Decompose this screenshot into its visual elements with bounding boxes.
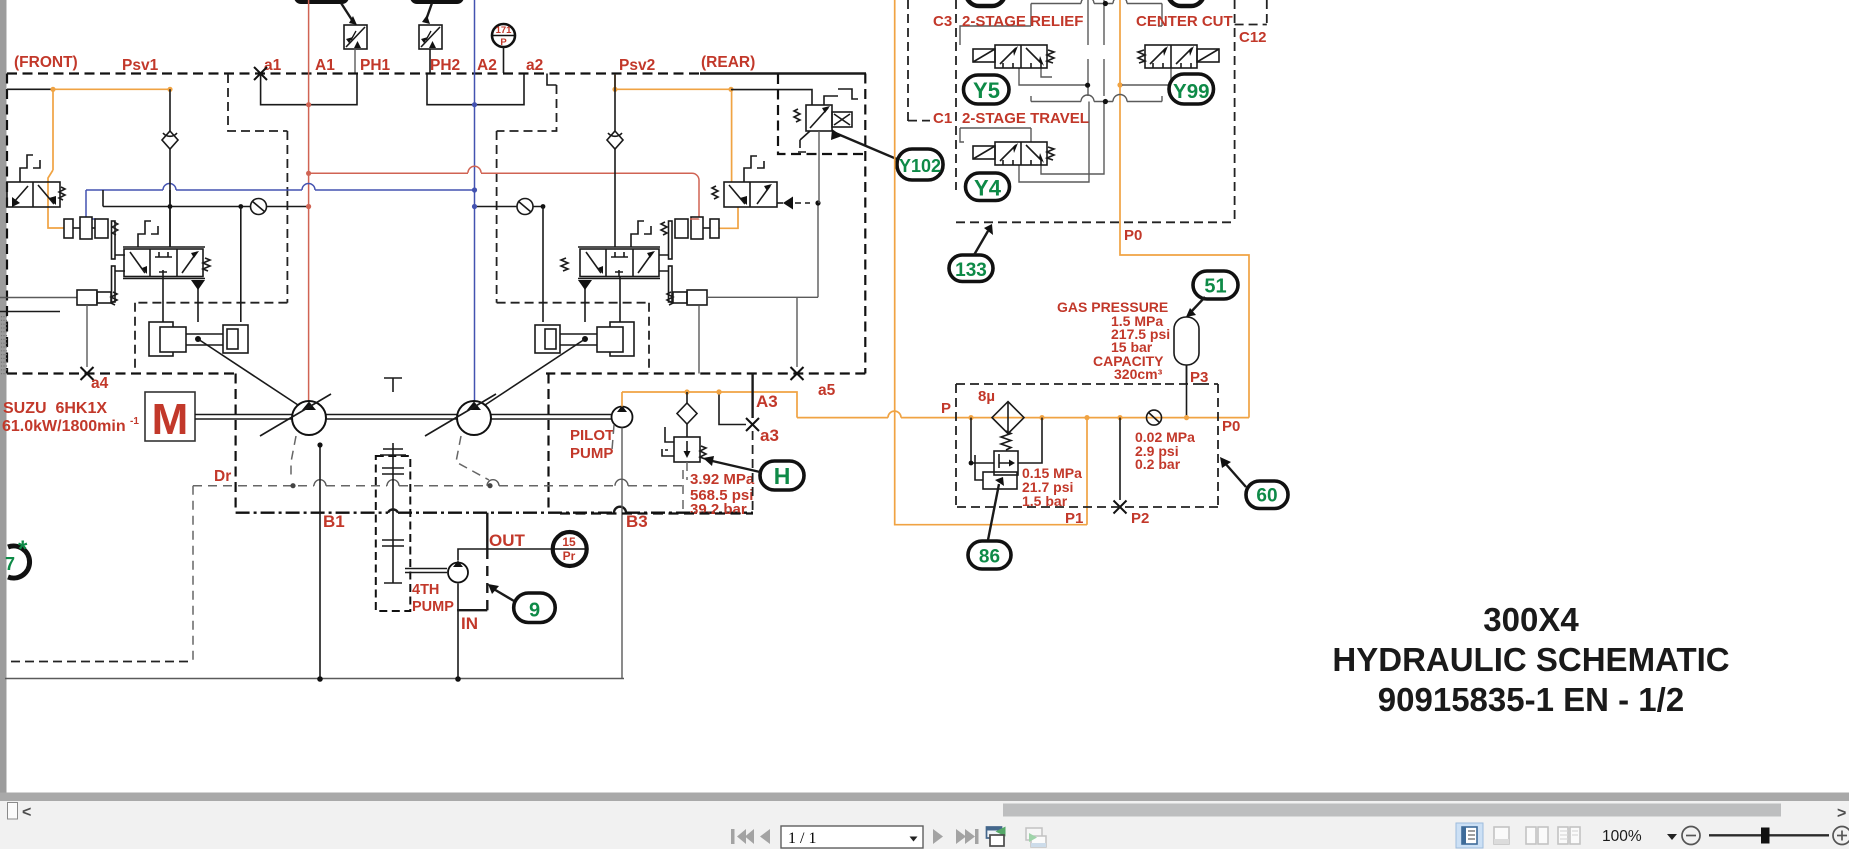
svg-text:P: P [941,400,951,417]
svg-text:Dr: Dr [214,468,231,485]
svg-text:86: 86 [979,547,1000,568]
svg-text:H: H [774,463,791,489]
svg-text:P1: P1 [1065,510,1083,527]
svg-text:0.2 bar: 0.2 bar [1135,456,1181,472]
svg-text:61.0kW/1800min: 61.0kW/1800min [2,418,126,435]
svg-text:OUT: OUT [489,531,526,550]
svg-text:(REAR): (REAR) [701,54,755,71]
svg-text:B3: B3 [626,512,648,531]
svg-text:8µ: 8µ [978,388,995,405]
svg-text:PH1: PH1 [360,57,391,74]
svg-text:B1: B1 [323,512,345,531]
svg-text:Y102: Y102 [899,156,941,176]
svg-text:15: 15 [562,535,576,549]
svg-text:HYDRAULIC SCHEMATIC: HYDRAULIC SCHEMATIC [1332,641,1729,678]
svg-text:<: < [22,804,31,821]
svg-text:*: * [18,536,28,563]
svg-text:A3: A3 [756,392,778,411]
svg-text:SUZU 6HK1X: SUZU 6HK1X [3,400,107,417]
svg-text:M: M [152,395,189,444]
svg-text:P0: P0 [1222,418,1240,435]
svg-text:51: 51 [1204,276,1226,298]
svg-text:Y5: Y5 [973,78,1000,103]
svg-text:PUMP: PUMP [570,445,613,462]
svg-text:a1: a1 [264,57,282,74]
svg-text:39.2 bar: 39.2 bar [690,501,747,518]
svg-text:C12: C12 [1239,29,1267,46]
svg-text:a3: a3 [760,426,779,445]
svg-text:A2: A2 [477,57,497,74]
svg-text:Psv2: Psv2 [619,57,655,74]
svg-text:C3: C3 [933,13,952,30]
svg-text:90915835-1 EN - 1/2: 90915835-1 EN - 1/2 [1378,681,1684,718]
svg-text:>: > [1837,805,1846,822]
svg-text:300X4: 300X4 [1483,601,1579,638]
svg-text:60: 60 [1256,486,1277,507]
svg-text:a5: a5 [818,382,836,399]
svg-text:1.5 bar: 1.5 bar [1022,493,1068,509]
svg-text:Y4: Y4 [974,176,1002,201]
svg-text:171: 171 [496,25,513,36]
svg-text:133: 133 [955,260,987,281]
svg-text:PILOT: PILOT [570,427,614,444]
svg-text:2-STAGE TRAVEL: 2-STAGE TRAVEL [962,110,1089,127]
svg-text:4TH: 4TH [412,582,439,598]
svg-text:320cm³: 320cm³ [1114,366,1163,382]
svg-text:IN: IN [461,614,478,633]
svg-text:P2: P2 [1131,510,1149,527]
svg-text:Psv1: Psv1 [122,57,159,74]
svg-text:C1: C1 [933,110,952,127]
svg-text:9: 9 [529,600,540,622]
svg-text:a2: a2 [526,57,543,74]
svg-text:PH2: PH2 [430,57,460,74]
svg-text:A1: A1 [315,57,335,74]
svg-text:3.92 MPa: 3.92 MPa [690,471,755,488]
svg-text:100%: 100% [1602,828,1642,845]
svg-text:(FRONT): (FRONT) [14,54,78,71]
svg-text:PUMP: PUMP [412,599,454,615]
svg-text:P: P [500,37,507,48]
svg-text:7: 7 [5,554,15,574]
svg-text:P0: P0 [1124,227,1142,244]
svg-text:2-STAGE RELIEF: 2-STAGE RELIEF [962,13,1083,30]
svg-text:-1: -1 [130,416,139,427]
svg-text:CENTER CUT: CENTER CUT [1136,13,1233,30]
svg-text:a4: a4 [91,375,109,392]
svg-text:Y99: Y99 [1173,80,1209,103]
svg-text:Pr: Pr [563,549,576,563]
svg-text:1 / 1: 1 / 1 [788,830,816,847]
